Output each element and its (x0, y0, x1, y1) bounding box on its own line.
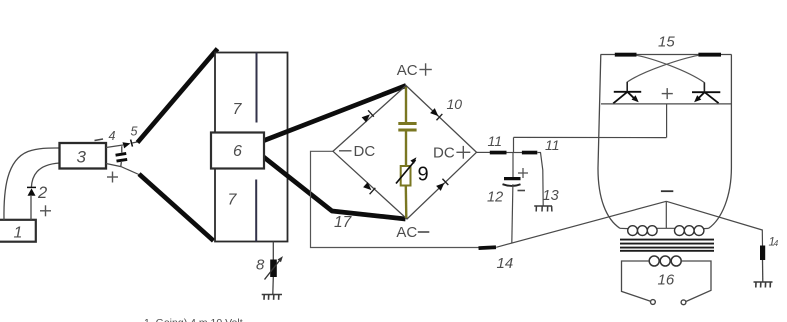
svg-text:11: 11 (488, 133, 503, 149)
svg-text:DC: DC (354, 143, 376, 160)
svg-text:5: 5 (131, 125, 138, 139)
svg-text:15: 15 (658, 34, 675, 51)
svg-text:9: 9 (418, 164, 429, 186)
svg-text:AC: AC (397, 62, 418, 79)
svg-text:12: 12 (487, 190, 503, 206)
svg-text:2: 2 (37, 184, 47, 202)
svg-text:8: 8 (256, 257, 265, 274)
svg-text:6: 6 (233, 143, 242, 160)
svg-text:10: 10 (447, 96, 463, 112)
svg-text:14: 14 (497, 255, 514, 272)
svg-text:4: 4 (774, 239, 779, 248)
svg-text:17: 17 (334, 214, 353, 231)
svg-text:16: 16 (658, 271, 675, 288)
svg-text:13: 13 (543, 188, 559, 204)
svg-text:3: 3 (77, 148, 87, 167)
svg-text:11: 11 (545, 137, 560, 153)
svg-text:4: 4 (109, 129, 116, 143)
svg-text:1. Going) 4 m 10 Volt: 1. Going) 4 m 10 Volt (144, 317, 243, 322)
svg-text:7: 7 (228, 192, 238, 209)
svg-text:DC: DC (433, 145, 455, 162)
svg-text:1: 1 (14, 225, 23, 242)
svg-text:AC: AC (396, 224, 417, 241)
svg-text:7: 7 (233, 101, 243, 118)
